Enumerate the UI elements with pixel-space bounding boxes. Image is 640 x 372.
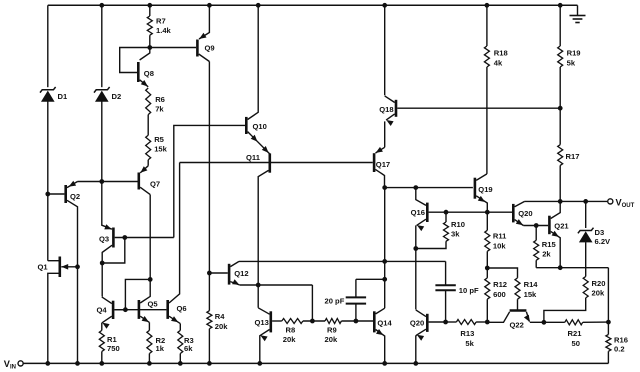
junction dot R1 rail	[100, 362, 104, 366]
junction dot D2 line	[100, 180, 104, 184]
junction dot R7 rail	[148, 3, 152, 7]
svg-text:1.4k: 1.4k	[156, 26, 172, 35]
svg-text:6.2V: 6.2V	[595, 237, 612, 246]
junction dot Q20e rail	[414, 362, 418, 366]
svg-text:1k: 1k	[156, 344, 165, 353]
resistor R9	[325, 319, 341, 324]
wire R15-sense	[536, 267, 608, 269]
label R21	[568, 329, 583, 348]
label R10	[451, 220, 465, 239]
svg-text:R16: R16	[614, 336, 628, 345]
wire R6-R5	[147, 115, 149, 136]
label Q16	[411, 208, 425, 217]
svg-text:R11: R11	[493, 232, 507, 241]
label R16	[614, 336, 628, 354]
transistor Q13	[258, 308, 271, 364]
junction dot spine rail	[383, 3, 387, 7]
svg-text:Q22: Q22	[510, 321, 524, 330]
label R8	[283, 326, 296, 345]
label Q11	[246, 153, 261, 162]
junction dot Q21 base	[534, 224, 538, 228]
wire Q8 loop	[120, 48, 150, 73]
terminal VOUT	[608, 199, 613, 204]
junction dot R11-R12	[485, 266, 489, 270]
transistor Q22	[487, 311, 544, 323]
transistor Q20 (output)	[513, 201, 548, 225]
wire Q12 base	[209, 272, 227, 274]
svg-text:750: 750	[107, 344, 120, 353]
svg-text:Q8: Q8	[144, 69, 154, 78]
wire Q17-Q19	[385, 187, 473, 189]
junction dot D2 rail	[100, 3, 104, 7]
label R5	[154, 135, 167, 154]
svg-text:R19: R19	[567, 49, 581, 58]
wire Q7c down	[149, 195, 151, 280]
junction dot Q16e-R10	[414, 247, 418, 251]
svg-text:Q1: Q1	[38, 263, 49, 272]
transistor Q17 (PNP)	[374, 147, 385, 188]
svg-text:Q12: Q12	[234, 269, 248, 278]
label R20	[592, 279, 606, 298]
svg-text:Q11: Q11	[246, 153, 261, 162]
svg-text:R21: R21	[568, 329, 583, 338]
wire Q18e-Q17e	[384, 121, 386, 147]
resistor R7	[147, 5, 152, 47]
svg-text:R14: R14	[524, 280, 539, 289]
junction node Q1 base	[76, 265, 80, 269]
resistor R13	[446, 320, 488, 325]
svg-text:Q6: Q6	[177, 304, 187, 313]
label R13	[460, 329, 474, 348]
svg-text:R9: R9	[327, 326, 337, 335]
wire Q16-Q19-Q20 bases	[446, 211, 513, 213]
svg-text:Q3: Q3	[99, 235, 109, 244]
diode D1 (zener)	[40, 5, 56, 260]
wire Q10 base	[174, 125, 245, 237]
svg-text:R7: R7	[156, 17, 166, 26]
svg-text:15k: 15k	[524, 290, 537, 299]
svg-text:Q18: Q18	[379, 105, 393, 114]
transistor Q8	[138, 48, 150, 87]
capacitor C 10pF	[435, 261, 455, 322]
junction dot mirror bases	[124, 308, 128, 312]
svg-text:10 pF: 10 pF	[459, 286, 479, 295]
junction dot D3-VOUT	[584, 200, 588, 204]
junction dot R17-VOUT	[558, 200, 562, 204]
svg-text:D2: D2	[112, 92, 122, 101]
label Q5	[148, 299, 159, 308]
svg-text:Q21: Q21	[554, 222, 569, 231]
resistor R15	[534, 226, 539, 268]
wire R8-R9	[303, 320, 325, 322]
transistor Q10	[246, 5, 269, 154]
junction dot R19-R17	[558, 106, 562, 110]
transistor Q5	[139, 279, 150, 322]
junction dot R19 rail	[558, 3, 562, 7]
resistor R10	[416, 212, 449, 248]
label R14	[524, 280, 539, 299]
transistor Q14	[374, 308, 384, 363]
junction dot Q16c tap	[414, 186, 418, 190]
transistor Q16	[416, 188, 446, 232]
label R3	[184, 336, 194, 353]
junction dot 10pF bottom	[444, 320, 448, 324]
transistor Q2	[48, 181, 78, 364]
label R18	[494, 49, 508, 68]
diode D3 (zener)	[578, 201, 594, 276]
label Q4	[97, 305, 108, 314]
label R11	[493, 232, 507, 251]
svg-text:R8: R8	[286, 326, 296, 335]
svg-text:Q2: Q2	[70, 192, 80, 201]
wire R9-Q14b	[341, 320, 373, 322]
junction dot R7 bottom	[148, 46, 152, 50]
svg-text:Q20: Q20	[410, 319, 424, 328]
wire Q9 base	[150, 47, 196, 49]
label R2	[156, 336, 166, 353]
wire Q7c to bases	[125, 279, 150, 309]
label Q6	[177, 304, 187, 313]
label Q3	[99, 235, 109, 244]
svg-text:R13: R13	[460, 329, 474, 338]
terminal VIN	[18, 361, 23, 366]
label 10pF	[459, 286, 479, 295]
junction dot 20pF top	[383, 277, 387, 281]
resistor R1	[99, 323, 104, 364]
label R4	[215, 312, 228, 331]
svg-text:0.2: 0.2	[614, 345, 625, 354]
label 20pF	[325, 296, 345, 305]
junction dot Q12 base tap	[208, 271, 212, 275]
transistor Q12	[229, 261, 240, 285]
resistor R21	[544, 320, 609, 325]
svg-text:R18: R18	[494, 49, 508, 58]
label D3	[595, 228, 612, 246]
svg-text:D1: D1	[58, 92, 68, 101]
resistor R20	[544, 277, 588, 323]
svg-text:20 pF: 20 pF	[325, 296, 345, 305]
junction dot R4 rail	[208, 362, 212, 366]
resistor R14	[487, 268, 520, 311]
wire Q16e down	[415, 225, 417, 309]
resistor R3	[178, 324, 183, 364]
label Q22	[510, 321, 524, 330]
wire Q2e-D2-Q7b	[78, 181, 138, 183]
junction dot Q21e-R15	[558, 266, 562, 270]
junction dot Q22e	[542, 320, 546, 324]
label R7	[156, 17, 172, 36]
wire Q4-Q5-Q6 bases	[114, 309, 166, 311]
resistor R8	[282, 319, 303, 324]
junction dot R3 rail	[178, 362, 182, 366]
svg-text:4k: 4k	[494, 58, 503, 67]
junction dot R8R9	[311, 319, 315, 323]
label Q19	[478, 185, 492, 194]
transistor Q19	[475, 174, 487, 212]
label Q1	[38, 263, 49, 272]
label R9	[325, 326, 338, 345]
wire Q12c long	[239, 260, 446, 262]
label D1	[58, 92, 68, 101]
label R15	[542, 240, 557, 258]
junction dot Q3 collector	[100, 261, 104, 265]
transistor Q18	[385, 96, 561, 126]
junction dot Q9 rail	[208, 3, 212, 7]
wire bottom VIN rail	[24, 362, 609, 364]
label Q10	[253, 122, 267, 131]
junction dot Q14 base	[354, 319, 358, 323]
label VOUT	[616, 197, 635, 209]
label Q14	[377, 319, 392, 328]
label Q9	[205, 44, 215, 53]
svg-text:20k: 20k	[592, 289, 605, 298]
junction dot bottom rail x48	[46, 362, 50, 366]
transistor Q4	[102, 297, 126, 329]
wire top supply rail	[48, 4, 578, 6]
wire Q12e to R8R9	[311, 285, 313, 321]
label Q8	[144, 69, 154, 78]
resistor R19	[558, 5, 563, 108]
junction dot Q3 base	[123, 236, 127, 240]
svg-text:3k: 3k	[451, 230, 460, 239]
svg-text:R17: R17	[566, 152, 580, 161]
svg-text:6k: 6k	[184, 344, 193, 353]
svg-text:R12: R12	[493, 280, 507, 289]
svg-text:600: 600	[493, 290, 506, 299]
label Q21	[554, 222, 569, 231]
junction dot Q11c node	[256, 283, 260, 287]
transistor Q21	[549, 201, 560, 267]
junction dot R10 top	[444, 210, 448, 214]
transistor Q7	[139, 166, 150, 195]
svg-text:Q10: Q10	[253, 122, 267, 131]
resistor R6	[146, 88, 151, 115]
resistor R4	[207, 311, 212, 364]
svg-text:5k: 5k	[567, 58, 576, 67]
wire Q11-Q17 bases	[180, 162, 373, 164]
label Q12	[234, 269, 248, 278]
svg-text:R1: R1	[107, 335, 117, 344]
junction dot bottom rail x77	[76, 362, 80, 366]
label Q18	[379, 105, 393, 114]
svg-text:Q20: Q20	[518, 209, 532, 218]
svg-text:Q9: Q9	[205, 44, 215, 53]
wire Q13 base lead	[272, 320, 282, 322]
svg-text:10k: 10k	[493, 242, 506, 251]
wire VOUT	[525, 200, 608, 202]
capacitor C 20pF	[346, 279, 385, 321]
svg-text:R5: R5	[154, 135, 164, 144]
label Q7	[150, 180, 160, 189]
label Q17	[376, 160, 390, 169]
label R19	[567, 49, 581, 68]
svg-text:Q16: Q16	[411, 208, 425, 217]
junction dot Q14e rail	[383, 362, 387, 366]
svg-text:Q14: Q14	[377, 319, 392, 328]
svg-text:R20: R20	[592, 279, 606, 288]
svg-text:50: 50	[572, 339, 580, 348]
transistor Q3	[102, 224, 174, 296]
resistor R5	[146, 135, 151, 166]
resistor R17	[558, 108, 563, 201]
junction dot R2 rail	[148, 362, 152, 366]
transistor Q6	[168, 163, 181, 324]
svg-text:R15: R15	[542, 240, 557, 249]
svg-text:Q17: Q17	[376, 160, 390, 169]
label R6	[155, 95, 165, 114]
label D2	[112, 92, 122, 101]
junction dot R18 rail	[485, 3, 489, 7]
svg-text:5k: 5k	[465, 339, 474, 348]
label R17	[566, 152, 580, 161]
svg-text:D3: D3	[595, 228, 605, 237]
svg-text:Q7: Q7	[150, 180, 160, 189]
junction dot R13 right	[485, 320, 489, 324]
transistor Q1	[48, 257, 78, 364]
wire sense down	[607, 268, 609, 322]
ground	[570, 5, 586, 22]
svg-text:Q13: Q13	[255, 318, 269, 327]
junction dot R21 right	[607, 320, 611, 324]
junction dot Q14c	[383, 260, 387, 264]
svg-text:Q5: Q5	[148, 299, 159, 308]
wire spine x385	[384, 5, 386, 95]
wire Q9c-R4	[208, 62, 210, 311]
label Q13	[255, 318, 269, 327]
svg-text:20k: 20k	[283, 335, 296, 344]
junction node D1/Q2 base	[46, 192, 50, 196]
junction dot Q7c-Q5c	[148, 278, 152, 282]
label R1	[107, 335, 120, 353]
resistor R2	[147, 322, 152, 363]
junction dot Q13e rail	[258, 362, 262, 366]
label Q20	[410, 319, 424, 328]
wire Q3 diode loop	[102, 238, 125, 264]
transistor Q20 (driver)	[416, 310, 446, 364]
svg-text:15k: 15k	[154, 145, 167, 154]
svg-text:R4: R4	[215, 312, 225, 321]
junction dot Q19e	[485, 210, 489, 214]
svg-text:Q4: Q4	[97, 305, 108, 314]
wire Q12e	[240, 284, 313, 286]
svg-text:R10: R10	[451, 220, 465, 229]
wire Q17c node down	[384, 188, 386, 309]
svg-text:7k: 7k	[155, 105, 164, 114]
svg-text:Q19: Q19	[478, 185, 492, 194]
label R12	[493, 280, 507, 299]
svg-text:20k: 20k	[215, 322, 228, 331]
label Q2	[70, 192, 80, 201]
junction dot Q17c	[383, 186, 387, 190]
diode D2 (zener)	[94, 5, 110, 226]
resistor R11	[485, 212, 490, 268]
resistor R12	[485, 268, 490, 322]
label VIN	[4, 359, 16, 371]
label Q20 out	[518, 209, 532, 218]
resistor R16	[606, 322, 611, 363]
resistor R18	[484, 5, 489, 174]
svg-text:R6: R6	[155, 95, 165, 104]
transistor Q11	[258, 153, 270, 307]
junction dot Q10c rail	[256, 3, 260, 7]
svg-text:20k: 20k	[325, 335, 338, 344]
svg-text:2k: 2k	[542, 249, 551, 258]
transistor Q9	[197, 5, 209, 61]
